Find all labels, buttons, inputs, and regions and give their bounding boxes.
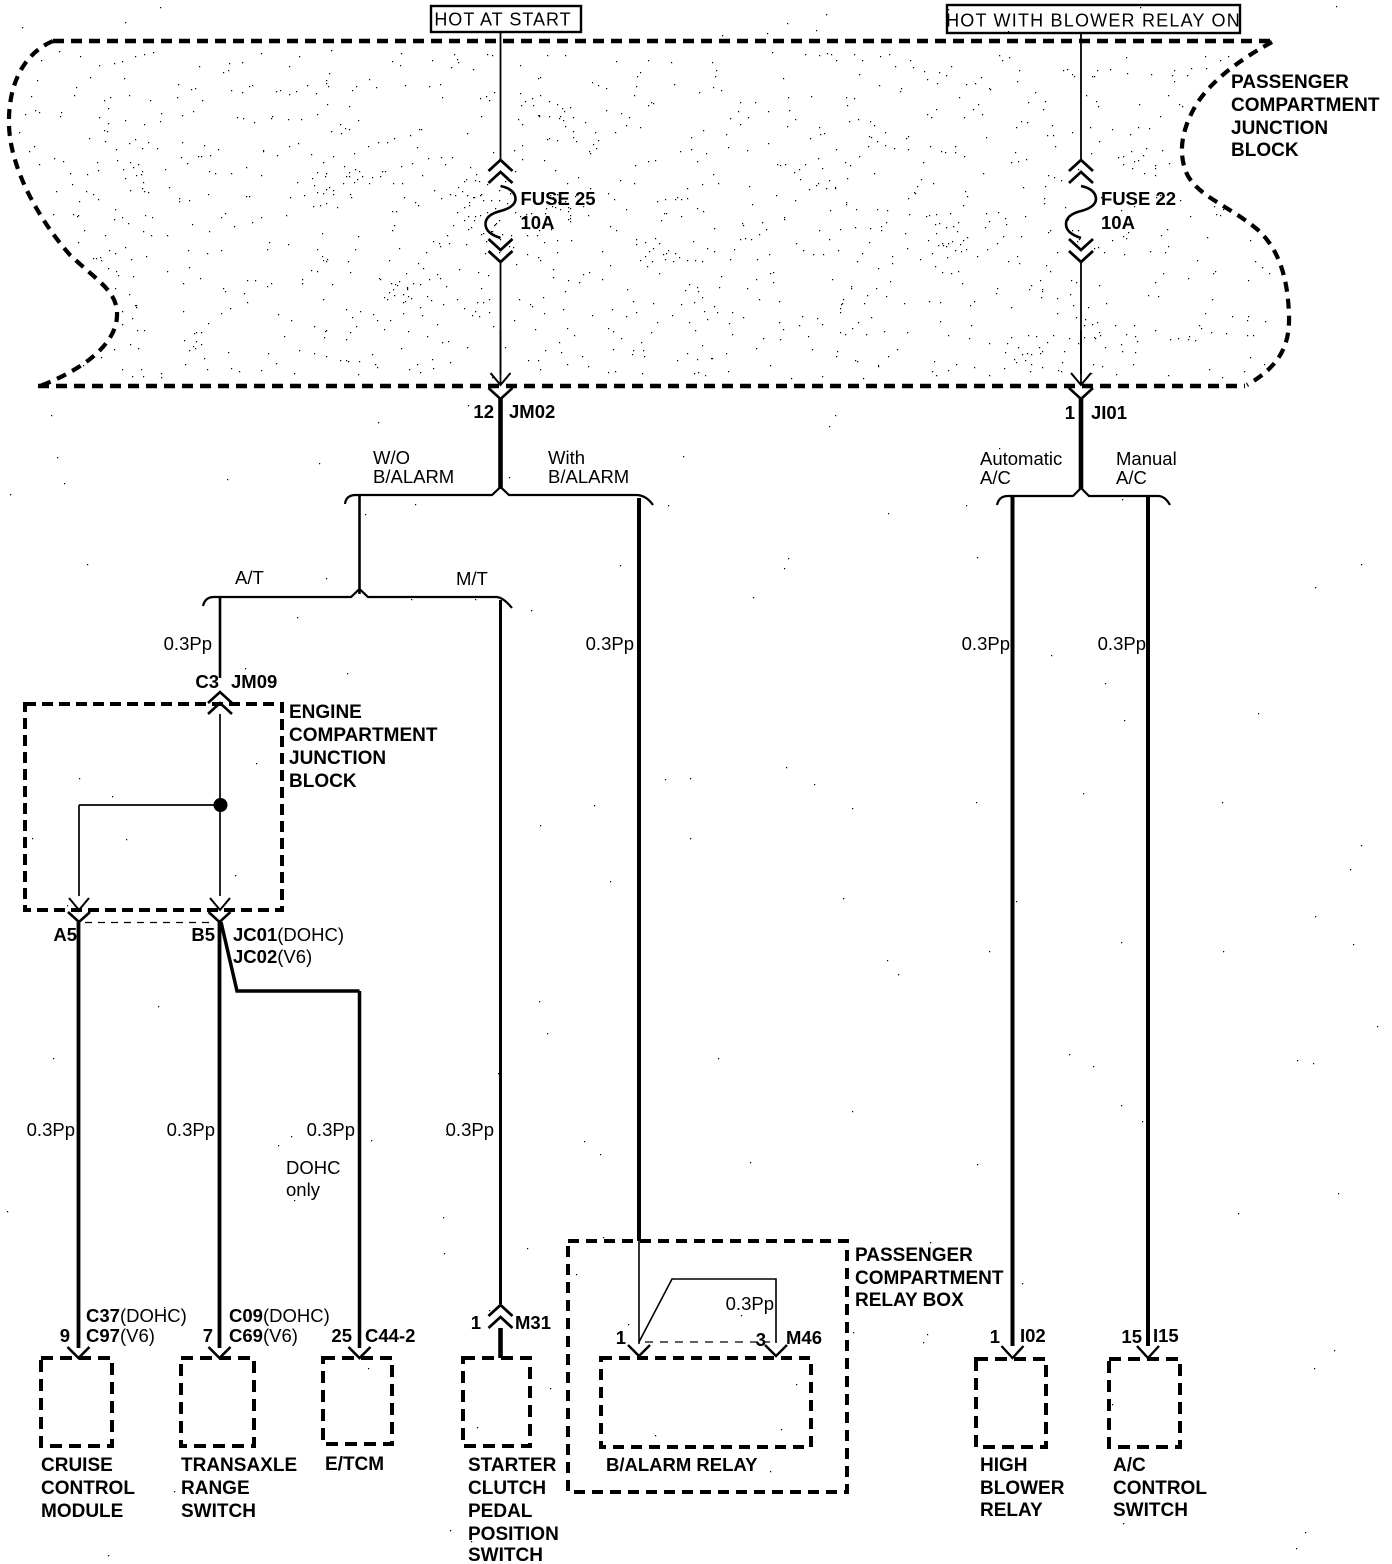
svg-text:A5: A5 xyxy=(53,924,77,945)
svg-text:12: 12 xyxy=(473,401,494,422)
svg-text:SWITCH: SWITCH xyxy=(1113,1500,1188,1521)
svg-text:MODULE: MODULE xyxy=(41,1501,123,1522)
svg-text:PEDAL: PEDAL xyxy=(468,1501,533,1522)
svg-text:FUSE 25: FUSE 25 xyxy=(521,188,596,209)
svg-text:HIGH: HIGH xyxy=(980,1455,1028,1476)
svg-text:A/C: A/C xyxy=(1116,467,1147,488)
svg-text:1: 1 xyxy=(990,1326,1000,1347)
svg-text:With: With xyxy=(548,447,585,468)
svg-text:A/C: A/C xyxy=(1113,1455,1146,1476)
svg-text:C3: C3 xyxy=(195,671,219,692)
svg-text:10A: 10A xyxy=(1101,212,1135,233)
svg-text:HOT WITH BLOWER RELAY ON: HOT WITH BLOWER RELAY ON xyxy=(946,11,1241,31)
svg-text:CLUTCH: CLUTCH xyxy=(468,1478,546,1499)
svg-text:0.3Pp: 0.3Pp xyxy=(446,1119,494,1140)
svg-text:B/ALARM: B/ALARM xyxy=(373,466,454,487)
svg-text:C97(V6): C97(V6) xyxy=(86,1325,155,1346)
svg-text:A/T: A/T xyxy=(235,567,264,588)
svg-text:1: 1 xyxy=(1065,402,1075,423)
svg-text:15: 15 xyxy=(1121,1326,1142,1347)
svg-text:B5: B5 xyxy=(191,924,215,945)
svg-text:HOT AT START: HOT AT START xyxy=(434,10,571,30)
svg-text:DOHC: DOHC xyxy=(286,1157,340,1178)
svg-text:W/O: W/O xyxy=(373,447,410,468)
svg-text:0.3Pp: 0.3Pp xyxy=(164,633,212,654)
svg-text:0.3Pp: 0.3Pp xyxy=(962,633,1010,654)
svg-text:POSITION: POSITION xyxy=(468,1524,559,1545)
svg-text:JI01: JI01 xyxy=(1091,402,1127,423)
svg-text:BLOWER: BLOWER xyxy=(980,1478,1065,1499)
svg-text:0.3Pp: 0.3Pp xyxy=(726,1293,774,1314)
svg-text:7: 7 xyxy=(203,1325,213,1346)
svg-text:JC01(DOHC): JC01(DOHC) xyxy=(233,924,344,945)
svg-text:JM02: JM02 xyxy=(509,401,555,422)
svg-text:1: 1 xyxy=(616,1327,626,1348)
svg-text:COMPARTMENT: COMPARTMENT xyxy=(289,725,438,746)
svg-text:COMPARTMENT: COMPARTMENT xyxy=(855,1268,1004,1289)
svg-text:M/T: M/T xyxy=(456,568,488,589)
svg-text:PASSENGER: PASSENGER xyxy=(855,1245,973,1266)
svg-text:C69(V6): C69(V6) xyxy=(229,1325,298,1346)
svg-text:JC02(V6): JC02(V6) xyxy=(233,946,312,967)
svg-text:FUSE 22: FUSE 22 xyxy=(1101,188,1176,209)
svg-text:0.3Pp: 0.3Pp xyxy=(167,1119,215,1140)
svg-text:I02: I02 xyxy=(1020,1325,1046,1346)
svg-text:C37(DOHC): C37(DOHC) xyxy=(86,1305,187,1326)
svg-text:PASSENGER: PASSENGER xyxy=(1231,72,1349,93)
svg-text:STARTER: STARTER xyxy=(468,1455,557,1476)
svg-text:ENGINE: ENGINE xyxy=(289,702,362,723)
svg-text:BLOCK: BLOCK xyxy=(1231,140,1299,161)
svg-text:3: 3 xyxy=(756,1329,766,1350)
svg-text:25: 25 xyxy=(331,1325,352,1346)
svg-text:BLOCK: BLOCK xyxy=(289,771,357,792)
svg-text:JUNCTION: JUNCTION xyxy=(289,748,386,769)
svg-text:E/TCM: E/TCM xyxy=(325,1454,384,1475)
svg-text:Automatic: Automatic xyxy=(980,448,1062,469)
svg-text:B/ALARM RELAY: B/ALARM RELAY xyxy=(606,1454,758,1475)
svg-text:CONTROL: CONTROL xyxy=(1113,1478,1207,1499)
svg-text:only: only xyxy=(286,1179,321,1200)
svg-text:9: 9 xyxy=(60,1325,70,1346)
svg-text:JUNCTION: JUNCTION xyxy=(1231,118,1328,139)
svg-text:JM09: JM09 xyxy=(231,671,277,692)
svg-text:1: 1 xyxy=(471,1312,481,1333)
svg-text:M31: M31 xyxy=(515,1312,551,1333)
svg-text:0.3Pp: 0.3Pp xyxy=(586,633,634,654)
svg-text:0.3Pp: 0.3Pp xyxy=(1098,633,1146,654)
svg-text:C44-2: C44-2 xyxy=(365,1325,415,1346)
svg-text:RELAY: RELAY xyxy=(980,1500,1043,1521)
svg-text:CONTROL: CONTROL xyxy=(41,1478,135,1499)
svg-text:SWITCH: SWITCH xyxy=(181,1501,256,1522)
svg-text:SWITCH: SWITCH xyxy=(468,1545,543,1564)
svg-text:B/ALARM: B/ALARM xyxy=(548,466,629,487)
svg-text:C09(DOHC): C09(DOHC) xyxy=(229,1305,330,1326)
svg-text:10A: 10A xyxy=(521,212,555,233)
svg-text:COMPARTMENT: COMPARTMENT xyxy=(1231,95,1380,116)
svg-text:RANGE: RANGE xyxy=(181,1478,250,1499)
svg-text:Manual: Manual xyxy=(1116,448,1177,469)
svg-text:A/C: A/C xyxy=(980,467,1011,488)
svg-text:CRUISE: CRUISE xyxy=(41,1455,113,1476)
svg-text:0.3Pp: 0.3Pp xyxy=(27,1119,75,1140)
svg-text:TRANSAXLE: TRANSAXLE xyxy=(181,1455,297,1476)
svg-text:RELAY BOX: RELAY BOX xyxy=(855,1290,964,1311)
svg-text:0.3Pp: 0.3Pp xyxy=(307,1119,355,1140)
svg-text:M46: M46 xyxy=(786,1327,822,1348)
